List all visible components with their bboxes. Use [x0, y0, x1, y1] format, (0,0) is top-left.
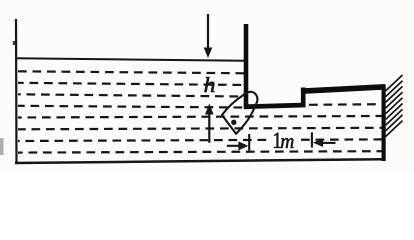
water dash row 5 (full width) [18, 116, 382, 118]
water dash row 7 (full width) [18, 139, 382, 141]
water dash row 8 (full width) [18, 151, 382, 152]
lower floor plate (1m long) [244, 105, 306, 107]
middle wall (thick) [244, 24, 249, 106]
label h [205, 77, 215, 92]
scan smudge left edge [0, 138, 4, 155]
dimension arrow right (toward tick) [227, 141, 249, 150]
white gap behind 1m label [271, 132, 297, 151]
water dash row 1 (left chamber) [18, 71, 246, 73]
water dash row 2 (left chamber) [18, 83, 246, 85]
paper background [0, 0, 414, 172]
down arrow (to water surface) [204, 14, 213, 58]
tank bottom line [15, 159, 384, 163]
up arrow (to floor level) [205, 104, 214, 143]
gate hinge curl [246, 102, 255, 106]
step riser [301, 88, 306, 107]
water dash row 4 right segment (under ledge) [309, 103, 382, 106]
label 1m letter m [281, 138, 294, 148]
left tank wall [15, 19, 18, 164]
upper ledge plate [301, 87, 386, 91]
dimension arrow left (toward tick) [313, 138, 336, 147]
dimension tick right [311, 132, 313, 147]
flap gate (hinged plate with curl) [222, 92, 257, 134]
water surface line [15, 58, 246, 61]
right fixed wall [382, 86, 386, 162]
wall hatching [386, 75, 403, 137]
water dash row 3 (left chamber) [18, 94, 246, 96]
dimension tick left [248, 134, 250, 151]
gate pivot dot [231, 120, 236, 125]
water dash row 6 (full width) [18, 128, 382, 130]
water dash row 4 left segment [18, 106, 245, 108]
left wall nub [13, 41, 15, 45]
label 1m digit 1 [274, 133, 281, 148]
